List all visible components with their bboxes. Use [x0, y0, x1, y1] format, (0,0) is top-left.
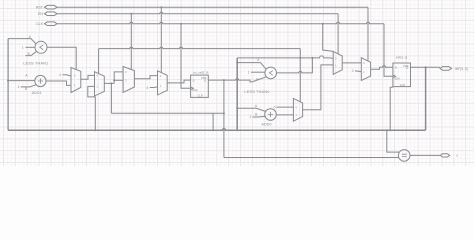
horizontal line y48.6 (select distribution) — [99, 47, 301, 48]
svg-text:lt: lt — [457, 154, 459, 158]
M3 in1 wire — [114, 79, 123, 81]
muxR1 output to muxR2 in0 — [342, 62, 361, 64]
wire EN branch vertical x131 to mux M3 select — [130, 14, 132, 70]
grid background — [0, 0, 474, 166]
equal input horizontal y157.5 — [224, 157, 399, 159]
svg-text:CLR: CLR — [400, 83, 405, 87]
svg-text:1: 1 — [18, 85, 20, 89]
wire CLK vertical to register R clock — [384, 24, 393, 77]
svg-text:LESS THAN1: LESS THAN1 — [23, 61, 48, 65]
svg-text:RST: RST — [36, 6, 44, 10]
registerR output wire — [411, 66, 441, 68]
register1 output wire — [208, 77, 266, 82]
equal output wire — [410, 154, 440, 156]
M2 output to M3 — [104, 72, 123, 113]
comparator U5 EQUAL — [398, 150, 410, 162]
svg-text:1: 1 — [22, 45, 24, 49]
wire CLK branch x322.7 to muxR1 — [323, 24, 334, 52]
svg-text:B: B — [25, 87, 27, 91]
wire RST branch vertical x161 to mux M4sel — [160, 7, 162, 72]
ADD1 output wire to M1 in1 — [46, 81, 71, 85]
ADD1 input A wire from feedback — [8, 80, 35, 82]
svg-text:ENA: ENA — [192, 88, 198, 92]
LT1 input A wire from feedback — [8, 39, 36, 44]
mux M4 — [158, 71, 168, 95]
vertical feedback x237 — [236, 58, 238, 130]
ADD0 input B const stub — [253, 115, 266, 118]
muxR0 output wire to muxR2 in1 — [303, 65, 334, 110]
M4 in1 const wire — [150, 86, 158, 89]
svg-text:ADD0: ADD0 — [261, 122, 271, 126]
svg-text:EN: EN — [38, 12, 43, 16]
svg-text:cnt_val[3..0]: cnt_val[3..0] — [193, 70, 209, 74]
wire RST top — [57, 6, 368, 8]
ADD0 input A wire — [237, 108, 266, 111]
wire EN top — [57, 12, 338, 14]
LT0 output wire to muxR1 in1 — [277, 58, 313, 73]
adder U2 ADD1 — [35, 75, 46, 86]
svg-text:ENA: ENA — [395, 77, 401, 81]
registerR clock triangle — [393, 75, 396, 78]
M1 in0 const wire — [63, 75, 72, 76]
LT0 const stub — [251, 71, 265, 73]
output feedback vertical x425.6 — [425, 67, 427, 130]
svg-text:D: D — [395, 66, 397, 70]
M1 output to M2 — [81, 75, 95, 79]
feedback bottom horizontal y130.8 — [8, 129, 426, 130]
ADD1 input B const stub — [21, 85, 36, 87]
horizontal wire y113.3 — [111, 112, 223, 114]
M2 select wire from h-line — [98, 49, 100, 74]
feedback left vertical x8 — [7, 39, 9, 131]
svg-text:B: B — [255, 113, 257, 117]
mux R2 — [361, 58, 370, 81]
svg-text:1: 1 — [250, 115, 252, 119]
wire CLK top — [57, 22, 384, 24]
svg-text:0: 0 — [352, 69, 354, 73]
LT1 input B lower stub — [25, 51, 36, 55]
mux M3 — [123, 67, 134, 93]
wire CLK branch vertical x181 to register1 clock — [181, 24, 191, 89]
mux R1 — [333, 51, 342, 74]
svg-text:4: 4 — [59, 73, 61, 77]
branch x213 down to feedback — [212, 113, 214, 130]
svg-text:0: 0 — [274, 105, 276, 109]
LT0 input A wire — [237, 63, 266, 70]
svg-text:LESS THAN0: LESS THAN0 — [244, 90, 269, 94]
LT1 input B const stub — [26, 46, 36, 48]
svg-text:B: B — [256, 77, 258, 81]
svg-text:D: D — [193, 78, 195, 82]
M2 in1 hook from feedback — [88, 86, 96, 130]
LT1 output wire to M1 select — [47, 47, 76, 69]
mux R0 — [293, 98, 302, 121]
svg-text:INF[3..0]: INF[3..0] — [455, 67, 468, 71]
muxR2 output to registerR D — [371, 66, 393, 69]
input pin CLK — [45, 22, 58, 26]
reg1 out branch down x223.9 to equal — [223, 80, 225, 157]
comparator U1 LESS THAN1 — [35, 41, 47, 53]
M3 output to M4 — [134, 76, 157, 79]
horizontal y57.9 to muxR1 in0 — [237, 56, 333, 59]
input pin EN — [45, 12, 58, 16]
svg-text:CLK: CLK — [36, 22, 44, 26]
equal input vertical x386.8 — [387, 130, 400, 152]
svg-text:ADD1: ADD1 — [32, 91, 42, 95]
registerR CLR wire down to feedback — [390, 87, 393, 130]
registerR INF — [393, 63, 411, 87]
register1 clock triangle — [191, 87, 194, 90]
svg-text:INF[3..0]: INF[3..0] — [396, 55, 408, 59]
register1 cnt — [191, 75, 209, 97]
wire RST vertical to mux M4 select — [367, 7, 369, 61]
output pin INF — [440, 67, 452, 71]
mux M2 — [95, 72, 105, 96]
adder U4 ADD0 — [265, 109, 277, 121]
svg-text:4: 4 — [147, 86, 149, 90]
svg-text:CLR: CLR — [198, 94, 203, 98]
input pin RST — [45, 5, 58, 9]
svg-text:B: B — [28, 52, 30, 56]
M4 output to register1 D — [167, 80, 190, 83]
output pin lt — [440, 154, 449, 157]
wire EN vertical to mux R1 select — [337, 14, 339, 54]
mux M1 — [71, 68, 81, 93]
comparator U3 LESS THAN0 — [265, 67, 277, 79]
ADD0 output to muxR0 in1 — [276, 114, 293, 116]
muxR2 in1 const 0 stub — [355, 70, 361, 73]
muxR0 select from y57.9 — [299, 49, 301, 102]
svg-text:1: 1 — [248, 70, 250, 74]
muxR0 in0 const stub — [276, 106, 293, 108]
